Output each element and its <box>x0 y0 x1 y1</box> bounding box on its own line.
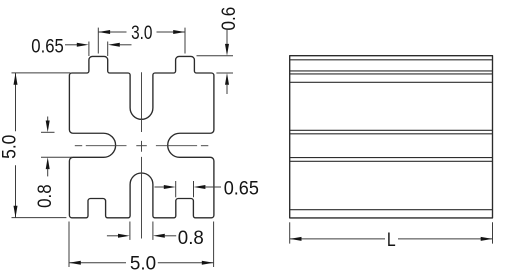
dimension 0.65 right (bottom groove width) <box>155 179 259 200</box>
dimension 0.65 (top tab width) <box>31 36 131 57</box>
cross-section profile outline <box>69 56 214 217</box>
svg-text:3.0: 3.0 <box>131 23 152 44</box>
svg-text:5.0: 5.0 <box>0 135 21 159</box>
svg-text:0.65: 0.65 <box>31 36 64 57</box>
svg-text:0.8: 0.8 <box>35 184 56 208</box>
horizontal centerline <box>75 145 209 147</box>
dimension L (length) <box>290 222 493 251</box>
dimension 0.8 bottom (slot width) <box>107 222 204 250</box>
dimension 0.6 (tab height, rotated) <box>197 7 241 94</box>
side view extrusion lines <box>290 60 493 210</box>
svg-text:5.0: 5.0 <box>130 254 156 275</box>
svg-text:0.65: 0.65 <box>224 179 259 200</box>
vertical centerline <box>141 72 143 238</box>
dimension 5.0 left (body height, rotated) <box>0 73 70 218</box>
svg-text:L: L <box>387 230 396 251</box>
svg-text:0.6: 0.6 <box>219 7 240 31</box>
svg-text:0.8: 0.8 <box>178 228 204 249</box>
dimension 3.0 (tab spacing) <box>98 23 185 53</box>
side view body rectangle <box>290 56 493 218</box>
dimension 0.8 left (slit height, rotated) <box>35 117 72 208</box>
dimension 5.0 bottom (body width) <box>69 222 214 275</box>
